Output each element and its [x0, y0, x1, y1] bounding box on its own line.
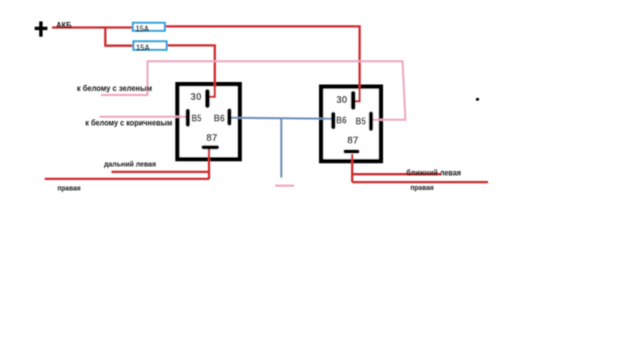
- svg-text:правая: правая: [57, 184, 80, 193]
- wire: branch down to fuse F2 (red): [105, 28, 133, 46]
- relay K2 pin 85 (B5): [356, 114, 372, 129]
- svg-text:В5: В5: [356, 116, 367, 127]
- stray dot: [476, 98, 479, 101]
- wire: pink net from "white-green" label to relay K2 pin B5: [101, 61, 405, 120]
- relay K2 body: [321, 87, 381, 161]
- svg-text:В6: В6: [336, 116, 347, 127]
- wire: low-beam right lamp line (red): [352, 181, 488, 183]
- relay K1 pin 85 (B5): [188, 111, 202, 125]
- relay K1 pin 30: [190, 91, 207, 105]
- relay K1 body: [177, 84, 239, 159]
- svg-text:В5: В5: [192, 113, 202, 124]
- svg-text:87: 87: [206, 133, 218, 144]
- relay K2 pin 86 (B6): [333, 114, 347, 127]
- svg-text:к белому с коричневым: к белому с коричневым: [85, 119, 172, 128]
- wire: battery feed to fuse F1 (red): [52, 26, 133, 28]
- ground (pink bar): [275, 185, 294, 187]
- wire: fuse F2 output to relay K1 pin 30 (red): [167, 45, 215, 97]
- svg-text:30: 30: [190, 92, 202, 103]
- wire: relay K2 pin 87 down to lamp lines (red): [351, 154, 353, 182]
- wire: blue branch down to ground: [280, 118, 282, 177]
- wire: pink net from "white-brown" label to relay K1 pin B5: [100, 116, 187, 118]
- relay K2 pin 87: [346, 136, 359, 152]
- svg-text:правая: правая: [410, 183, 433, 192]
- relay K1 pin 87: [203, 133, 218, 147]
- wire: relay K1 pin 87 down to lamp lines (red): [208, 149, 210, 180]
- relay K2 pin 30: [336, 93, 353, 107]
- svg-text:АКБ: АКБ: [56, 21, 72, 30]
- fuse F2 15A: [133, 41, 166, 52]
- wire: fuse F1 output to relay K2 pin 30 (red): [165, 26, 360, 101]
- wire: blue net relay K1 pin B6 to relay K2 pin B6: [231, 117, 334, 120]
- wire: low-beam left lamp line (red): [352, 173, 440, 175]
- wire: high-beam right lamp line (red): [45, 178, 209, 180]
- wire: high-beam left lamp line (red): [112, 171, 210, 173]
- svg-text:ближний левая: ближний левая: [406, 168, 461, 177]
- battery positive terminal +: [35, 21, 48, 36]
- svg-text:к белому с зеленым: к белому с зеленым: [77, 84, 152, 93]
- svg-text:15А: 15А: [136, 24, 150, 34]
- svg-text:дальний левая: дальний левая: [104, 159, 156, 168]
- fuse F1 15A: [133, 23, 165, 34]
- svg-text:15А: 15А: [136, 43, 150, 53]
- svg-text:В6: В6: [214, 113, 225, 124]
- relay K1 pin 86 (B6): [214, 111, 230, 125]
- svg-text:87: 87: [347, 136, 359, 147]
- svg-text:30: 30: [336, 95, 348, 106]
